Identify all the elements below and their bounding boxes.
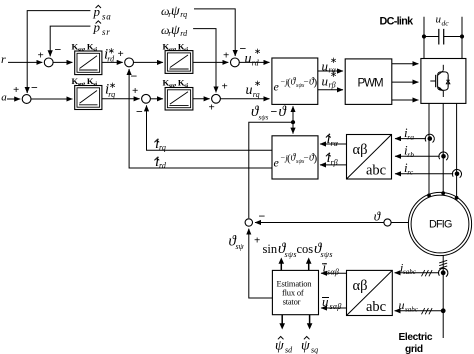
svg-text:αβ: αβ [353, 278, 368, 294]
rotation block ejblock1 e^-j(th_psis-th) [272, 58, 318, 104]
transistor IGBT symbol inside inverter [430, 65, 450, 97]
wire sum4 to ejblock1 [220, 98, 269, 100]
svg-text:ψ: ψ [301, 339, 310, 354]
svg-text:∗: ∗ [108, 45, 115, 55]
label i_sab bar [322, 259, 339, 276]
svg-text:sr: sr [102, 27, 111, 37]
svg-text:abc: abc [366, 299, 386, 315]
label u_sabc [399, 298, 419, 314]
wire inverter phase b down [442, 103, 444, 193]
svg-text:∗: ∗ [330, 55, 337, 65]
label i_rd* [104, 45, 115, 63]
svg-text:e: e [274, 156, 280, 170]
capacitor C dc-link [424, 29, 462, 45]
wire est out sin (up arrow) [280, 262, 282, 270]
label i_rd_hat [154, 154, 166, 170]
svg-text:r: r [1, 52, 6, 66]
wire DC-link right rail [461, 17, 463, 59]
svg-text:sψs: sψs [321, 250, 333, 259]
svg-text:+: + [118, 48, 124, 60]
svg-text:): ) [314, 77, 318, 89]
svg-text:sq: sq [311, 346, 318, 354]
label p_sa [93, 4, 112, 22]
wire grid u_sabc to abc2 [395, 310, 444, 312]
wire sensor a to abc1 [395, 138, 426, 140]
summing junction S2b [132, 85, 150, 119]
wire PI1b to sum2b [102, 98, 140, 100]
encoder circle on theta wire [384, 219, 391, 226]
svg-text:): ) [314, 153, 318, 165]
svg-text:sψs: sψs [285, 250, 297, 259]
wire S2b to PI2b [150, 98, 163, 100]
svg-text:+: + [13, 84, 19, 96]
PI controller block PI2b [165, 88, 193, 111]
wire PWM to inverter 1 [392, 63, 419, 65]
svg-text:rα: rα [331, 139, 339, 148]
three-phase slash stator [439, 260, 447, 268]
wire angle to ejblock2 (down) [292, 122, 294, 133]
svg-text:u: u [322, 58, 329, 73]
label psi_sq_hat [301, 337, 318, 354]
wire w_r psi_rq to sum3 [194, 9, 235, 56]
label psi_sd_hat [275, 337, 293, 354]
label u_ra* [322, 55, 338, 75]
current sensor i_sabc (ring) [438, 268, 447, 276]
summing junction S1b [13, 81, 38, 104]
node dot angle tee [291, 120, 295, 124]
svg-text:u: u [399, 298, 405, 312]
label i_rq_hat [154, 136, 165, 152]
label i_rc [404, 160, 414, 177]
svg-text:rq: rq [159, 143, 166, 152]
svg-text:ra: ra [407, 132, 414, 141]
label i_sabc [400, 260, 417, 276]
wire est out cos (up arrow) [308, 262, 310, 270]
current sensor i_ra [425, 134, 434, 142]
wire sensor b to abc1 [395, 155, 440, 157]
wire ejblock2 out i_rd_hat [129, 69, 272, 168]
svg-text:αβ: αβ [353, 142, 368, 158]
wire grid i_sabc to abc2 [395, 272, 439, 274]
svg-text:grid: grid [405, 344, 423, 354]
label u_dc [436, 14, 450, 28]
wire theta from DFIG to psi junction [255, 222, 409, 224]
label u_sab bar [322, 294, 342, 311]
wire ejblock1 out u_ra to PWM [318, 70, 343, 72]
svg-text:rβ: rβ [331, 158, 338, 167]
estimation block [272, 270, 318, 314]
svg-text:sαβ: sαβ [330, 302, 342, 311]
node dot rotor b on DFIG [441, 191, 445, 195]
svg-text:−: − [55, 43, 62, 57]
svg-text:DC-link: DC-link [380, 16, 415, 28]
wire inverter phase a down [428, 103, 430, 195]
wire sensor c to abc1 [395, 173, 453, 175]
svg-text:sψ: sψ [236, 242, 245, 251]
svg-text:∗: ∗ [254, 46, 261, 56]
wire w_r psi_rd to sum4 [193, 29, 216, 93]
wire a to sum1b [7, 98, 20, 100]
wire DC-link left rail [423, 17, 425, 59]
summing junction S3 [223, 42, 247, 67]
svg-text:rq: rq [253, 90, 260, 99]
summing junction psi angle [245, 209, 265, 247]
svg-text:+: + [223, 50, 229, 62]
wire S1b to PI1b [31, 98, 72, 100]
svg-text:rd: rd [180, 29, 188, 38]
node dot rotor a on DFIG [427, 194, 431, 198]
wire inverter phase c down [456, 103, 458, 197]
svg-text:ψ: ψ [171, 23, 180, 38]
wire flux estimator to psi junction [249, 229, 273, 298]
svg-text:rβ: rβ [329, 80, 336, 89]
label u_rb* [322, 69, 338, 89]
label u_rq* [246, 78, 262, 99]
wire PWM to inverter 2 [392, 81, 419, 83]
svg-text:DFIG: DFIG [429, 218, 452, 230]
label i_ra [404, 125, 414, 142]
label i_ralpha [326, 131, 339, 148]
label theta_psis - theta [251, 104, 288, 122]
current sensor i_rb [439, 152, 448, 160]
label w_r psi_rd [161, 23, 188, 38]
label p_sr [93, 20, 111, 38]
svg-text:e: e [274, 80, 280, 94]
svg-text:−: − [136, 105, 143, 119]
three-phase slash i_sabc [422, 270, 433, 276]
summing junction S2 [118, 48, 138, 83]
wire p_sr feedback [50, 26, 90, 56]
svg-text:+: + [209, 102, 215, 114]
svg-text:u: u [245, 51, 252, 66]
wire ejblock2 out i_rq_hat [147, 105, 273, 150]
svg-text:∗: ∗ [254, 78, 261, 88]
wire PI1 to sum2 [102, 61, 123, 63]
svg-text:−: − [131, 69, 138, 83]
svg-text:rb: rb [407, 150, 414, 159]
label w_r psi_rq [161, 4, 187, 19]
wire sum3 to ejblock1 [239, 61, 269, 63]
svg-text:abc: abc [366, 163, 386, 179]
svg-text:sabc: sabc [403, 268, 417, 276]
svg-text:stator: stator [283, 297, 301, 307]
wire angle from psi junction [249, 122, 293, 218]
svg-text:ψ: ψ [275, 339, 284, 354]
svg-text:a: a [1, 92, 7, 104]
svg-text:rc: rc [407, 168, 414, 177]
wire PI2b to sum4 [193, 98, 210, 100]
svg-text:Electric: Electric [399, 332, 433, 343]
svg-text:u: u [246, 83, 253, 98]
PI controller block PI1b [75, 86, 102, 110]
rotation block ejblock2 e^-j(th_psis-th) [272, 136, 318, 179]
node dot u_sabc tap [441, 308, 446, 313]
svg-text:sαβ: sαβ [327, 268, 339, 277]
wire est out psi_sd (down arrow) [281, 315, 283, 325]
wire r to sum1 [8, 61, 42, 63]
abc to alphabeta block (rotor) [347, 135, 392, 180]
label i_rbeta [326, 150, 338, 167]
svg-text:+: + [222, 81, 228, 93]
svg-text:∗: ∗ [330, 69, 337, 79]
label Electric grid [399, 332, 433, 354]
wire est out psi_sq (down arrow) [309, 315, 311, 325]
label i_rb [404, 143, 414, 160]
wire PI2 to sum3 [193, 61, 228, 63]
svg-text:sa: sa [102, 12, 112, 22]
svg-text:sabc: sabc [405, 306, 419, 314]
label u_rd* [245, 46, 262, 67]
svg-text:+: + [132, 85, 138, 97]
svg-text:u: u [322, 294, 329, 309]
wire PWM to inverter 3 [392, 99, 419, 101]
inverter block [421, 59, 466, 104]
wire DFIG stator to grid [442, 255, 444, 338]
summing junction S1 [38, 43, 62, 67]
DFIG machine [408, 192, 471, 255]
label sin cos theta_spsis [263, 241, 333, 259]
PI controller block PI1 [75, 51, 102, 75]
three-phase slash u_sabc [422, 308, 433, 314]
label theta_spsi [229, 234, 245, 252]
svg-text:ψ: ψ [171, 4, 180, 19]
svg-text:+: + [38, 50, 44, 62]
node dot right rail [460, 34, 464, 38]
wire S1 to PI1 [53, 61, 72, 63]
svg-text:ϑ: ϑ [374, 208, 381, 223]
current sensor i_rc [452, 169, 461, 177]
wire ejblock1 out u_rb to PWM [318, 89, 343, 91]
svg-text:rd: rd [159, 161, 167, 170]
svg-text:+: + [254, 235, 260, 247]
svg-text:−: − [31, 81, 38, 95]
svg-text:sin: sin [263, 242, 278, 256]
wire abc2 to estimation i_sab [321, 272, 347, 274]
svg-text:rq: rq [108, 90, 115, 99]
svg-text:−: − [304, 153, 309, 163]
wire abc1 out i_ralpha to ejblock2 [320, 143, 347, 145]
wire abc2 to estimation u_sab [321, 307, 347, 309]
wire p_sa feedback [27, 11, 90, 93]
abc to alphabeta block (stator) [347, 270, 393, 315]
label i_rq* [105, 80, 116, 99]
svg-text:−: − [271, 105, 278, 119]
svg-text:−: − [259, 209, 266, 223]
PI controller block PI2 [165, 51, 193, 74]
wire S2 to PI2 [134, 61, 163, 63]
svg-text:dc: dc [442, 19, 450, 28]
wire abc1 out i_rbeta to ejblock2 [320, 164, 347, 166]
summing junction S4 [209, 81, 228, 114]
wire angle to ejblock1 (up) [292, 106, 294, 122]
svg-text:cos: cos [297, 242, 314, 256]
svg-text:PWM: PWM [358, 78, 384, 90]
svg-text:rq: rq [180, 10, 187, 19]
svg-text:u: u [322, 73, 329, 88]
node dot left rail [422, 34, 426, 38]
svg-text:i: i [323, 259, 327, 274]
node dot rotor c on DFIG [455, 196, 459, 200]
svg-text:∗: ∗ [109, 80, 116, 90]
svg-text:sψs: sψs [259, 114, 269, 122]
svg-text:−: − [304, 77, 309, 87]
svg-text:sd: sd [285, 346, 293, 354]
PWM block [345, 59, 392, 105]
